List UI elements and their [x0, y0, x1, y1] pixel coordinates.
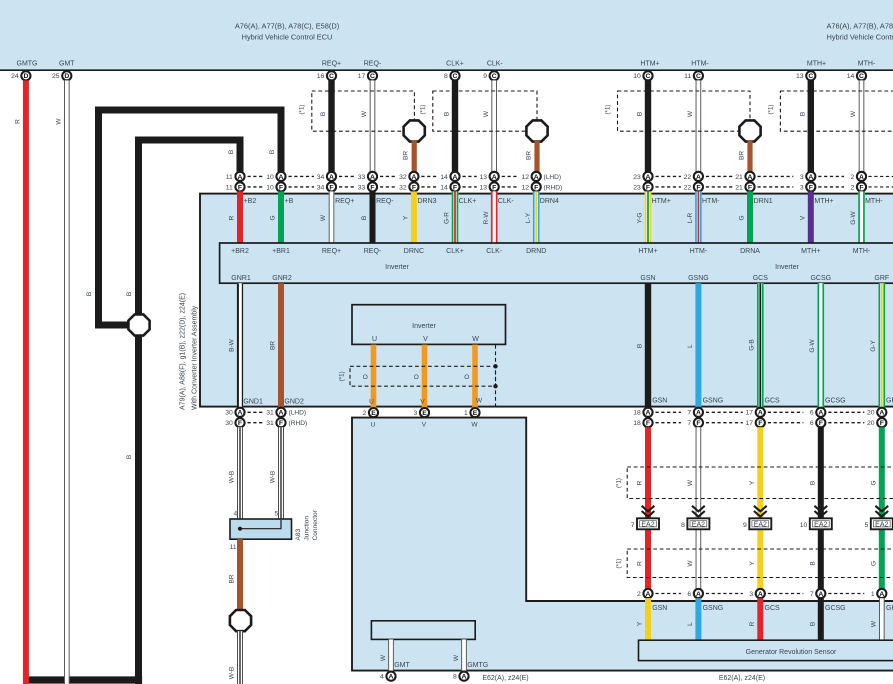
wire R to EA2 — [645, 427, 651, 589]
svg-text:C: C — [808, 73, 813, 80]
svg-text:7: 7 — [810, 591, 814, 598]
wire W (GMT) — [388, 639, 394, 670]
svg-text:REQ-: REQ- — [376, 198, 394, 205]
svg-text:A: A — [818, 591, 823, 598]
pin 13 connector circle C — [806, 71, 815, 80]
svg-text:F: F — [696, 420, 700, 427]
svg-text:A: A — [462, 674, 467, 681]
svg-text:8: 8 — [453, 674, 457, 681]
svg-text:V: V — [422, 422, 427, 429]
transaxle assembly box — [352, 418, 893, 671]
pin 21 connector circle F — [745, 182, 754, 191]
connector row dashes — [380, 175, 396, 177]
pin 21 connector circle A — [745, 172, 754, 181]
svg-text:REQ-: REQ- — [364, 248, 382, 255]
pin 18 circle F (sensor) — [643, 418, 652, 427]
svg-text:BR: BR — [738, 151, 745, 160]
svg-text:2: 2 — [851, 184, 855, 191]
svg-text:G-R: G-R — [444, 212, 451, 224]
svg-text:7: 7 — [631, 522, 635, 529]
svg-text:GMTG: GMTG — [17, 60, 38, 67]
svg-text:GRF: GRF — [886, 398, 893, 405]
svg-text:U: U — [371, 422, 376, 429]
svg-text:7: 7 — [687, 410, 691, 417]
wire B (B signal +) at x=810.8 — [808, 80, 814, 171]
svg-text:B: B — [320, 112, 327, 116]
pin 22 connector circle F — [694, 182, 703, 191]
svg-text:MTH-: MTH- — [853, 248, 871, 255]
svg-text:3: 3 — [749, 591, 753, 598]
pin 18 circle A (sensor) — [643, 408, 652, 417]
pin 2 connector circle A — [857, 172, 866, 181]
svg-text:R: R — [749, 621, 756, 626]
svg-text:(*1): (*1) — [339, 371, 346, 381]
pin 12 connector circle A — [532, 172, 541, 181]
wire W (GMTG) — [461, 639, 467, 670]
svg-text:E: E — [473, 410, 478, 417]
svg-text:F: F — [279, 184, 283, 191]
svg-text:U: U — [372, 336, 377, 343]
svg-text:A: A — [238, 410, 243, 417]
svg-text:14: 14 — [440, 174, 448, 181]
svg-text:GRF: GRF — [886, 605, 893, 612]
wire W (signal -) at x=372.5 — [370, 80, 376, 171]
svg-text:4: 4 — [234, 511, 238, 518]
svg-text:F: F — [748, 184, 752, 191]
svg-text:20: 20 — [867, 420, 875, 427]
svg-text:18: 18 — [633, 410, 641, 417]
svg-text:GCSG: GCSG — [810, 275, 831, 282]
wire R into inverter — [237, 191, 243, 243]
svg-text:GSNG: GSNG — [703, 605, 724, 612]
svg-text:33: 33 — [358, 184, 366, 191]
shield dashed box (*1) MTH — [780, 91, 893, 131]
svg-text:W: W — [850, 110, 857, 117]
svg-text:24: 24 — [11, 73, 19, 80]
svg-text:EA2: EA2 — [692, 522, 705, 529]
junction internal bus — [240, 520, 281, 529]
svg-text:A: A — [646, 591, 651, 598]
svg-text:A: A — [279, 410, 284, 417]
shield dashed box (*1) HTM — [618, 91, 751, 131]
shield dashed box (*1) CLK — [433, 91, 537, 131]
connector row dashes — [502, 175, 519, 177]
svg-text:E62(A), z24(E): E62(A), z24(E) — [719, 675, 765, 682]
shield dashed drop line — [495, 345, 497, 406]
connector row dashes right edge — [869, 175, 893, 177]
svg-text:C: C — [329, 73, 334, 80]
svg-text:B: B — [637, 112, 644, 116]
svg-text:34: 34 — [317, 184, 325, 191]
svg-text:A83: A83 — [295, 528, 302, 540]
shield octagon REQ — [404, 120, 425, 141]
svg-text:L: L — [687, 344, 694, 348]
pin 1 circle A (generator) — [877, 589, 886, 598]
svg-text:C: C — [370, 73, 375, 80]
svg-text:3: 3 — [800, 174, 804, 181]
svg-text:F: F — [238, 184, 242, 191]
svg-text:11: 11 — [226, 184, 233, 191]
svg-text:REQ+: REQ+ — [322, 248, 341, 255]
svg-text:W: W — [476, 397, 483, 404]
svg-text:DRNA: DRNA — [740, 248, 760, 255]
svg-text:22: 22 — [684, 184, 692, 191]
svg-text:3: 3 — [414, 410, 418, 417]
connector row dashes — [289, 175, 315, 177]
svg-text:10: 10 — [633, 73, 641, 80]
svg-text:R: R — [637, 480, 644, 485]
svg-text:GCSG: GCSG — [825, 398, 846, 405]
svg-text:DRN3: DRN3 — [418, 198, 437, 205]
svg-text:HTM-: HTM- — [690, 248, 708, 255]
pin 16 connector circle C — [327, 71, 336, 80]
svg-text:6: 6 — [810, 410, 814, 417]
wire W (signal -) at x=698.4 — [696, 80, 702, 171]
svg-text:Y: Y — [403, 215, 410, 220]
wire W to EA2 — [696, 427, 702, 589]
svg-text:Y: Y — [749, 480, 756, 485]
svg-text:W: W — [56, 118, 63, 125]
wire G-B (GCS) — [757, 283, 764, 407]
svg-text:B: B — [86, 292, 93, 296]
svg-text:21: 21 — [735, 174, 743, 181]
connector row dashes — [758, 175, 794, 177]
wire B (GSN) — [645, 283, 651, 407]
svg-text:5: 5 — [275, 511, 279, 518]
svg-text:A: A — [370, 174, 375, 181]
wire B (B signal +) at x=331.5 — [328, 80, 334, 171]
svg-text:CLK-: CLK- — [486, 248, 503, 255]
svg-text:F: F — [646, 184, 650, 191]
wire B thick joining octagon — [95, 322, 129, 329]
EA2 splice arrow 5 — [875, 506, 888, 512]
svg-text:V: V — [799, 215, 806, 220]
wire B into inverter — [370, 191, 376, 243]
pin 3 connector circle A — [806, 172, 815, 181]
svg-text:W: W — [870, 620, 877, 627]
svg-text:GNR2: GNR2 — [272, 275, 292, 282]
svg-text:R: R — [637, 561, 644, 566]
svg-text:F: F — [453, 184, 457, 191]
svg-text:DRN1: DRN1 — [754, 198, 773, 205]
svg-text:REQ+: REQ+ — [322, 60, 341, 67]
wire R (GMTG) — [23, 80, 29, 684]
svg-text:9: 9 — [743, 522, 747, 529]
svg-text:B: B — [228, 150, 235, 154]
svg-text:W: W — [472, 336, 479, 343]
svg-text:GSN: GSN — [652, 398, 667, 405]
pin 2 connector circle F — [857, 182, 866, 191]
svg-text:31: 31 — [266, 420, 274, 427]
wire O (U phase) — [371, 345, 377, 408]
sensor row dashes — [828, 411, 864, 413]
svg-text:GNR1: GNR1 — [231, 275, 251, 282]
svg-text:REQ+: REQ+ — [335, 198, 354, 205]
svg-text:B: B — [809, 622, 816, 626]
svg-text:B: B — [126, 292, 133, 296]
svg-text:E: E — [422, 410, 427, 417]
svg-text:CLK-: CLK- — [487, 60, 504, 67]
svg-text:23: 23 — [633, 174, 641, 181]
pin 22 connector circle A — [694, 172, 703, 181]
GND row dashes — [248, 411, 264, 413]
svg-text:32: 32 — [399, 174, 407, 181]
EA2 connector 7 — [637, 518, 659, 529]
connector row dashes — [818, 175, 844, 177]
EA2 connector 8 — [687, 518, 709, 529]
svg-text:33: 33 — [358, 174, 366, 181]
svg-text:HTM-: HTM- — [702, 198, 720, 205]
svg-text:5: 5 — [865, 522, 869, 529]
svg-text:A: A — [329, 174, 334, 181]
svg-text:GCSG: GCSG — [825, 605, 846, 612]
pin 30 circle F — [235, 418, 244, 427]
svg-text:GMT: GMT — [394, 662, 410, 669]
pin 1 circle E — [470, 408, 479, 417]
generator row dashes — [656, 593, 681, 595]
svg-text:With Converter Inverter Assemb: With Converter Inverter Assembly — [192, 305, 199, 410]
phase dashed box (*1) — [350, 366, 496, 386]
svg-text:W: W — [483, 110, 490, 117]
svg-text:F: F — [819, 420, 823, 427]
noise filter octagon left — [128, 314, 149, 335]
svg-text:A: A — [389, 674, 394, 681]
svg-text:30: 30 — [225, 410, 233, 417]
svg-text:REQ-: REQ- — [364, 60, 382, 67]
svg-text:A: A — [696, 591, 701, 598]
svg-text:W: W — [380, 654, 387, 661]
svg-text:R: R — [15, 119, 22, 124]
svg-text:F: F — [696, 184, 700, 191]
pin 13 connector circle A — [490, 172, 499, 181]
wire G-R into inverter — [452, 191, 459, 243]
svg-text:Inverter: Inverter — [775, 264, 799, 271]
svg-text:4: 4 — [380, 674, 384, 681]
svg-text:W: W — [687, 560, 694, 567]
pin 4 circle A — [386, 672, 395, 681]
wire B thick below octagon — [135, 335, 142, 684]
svg-text:8: 8 — [444, 73, 448, 80]
pin 6 circle A (sensor) — [816, 408, 825, 417]
svg-text:GSNG: GSNG — [688, 275, 709, 282]
pin 10 connector circle C — [643, 71, 652, 80]
pin 10 connector circle A — [276, 172, 285, 181]
svg-text:MTH-: MTH- — [858, 60, 876, 67]
svg-text:17: 17 — [358, 73, 366, 80]
svg-text:(*1): (*1) — [768, 105, 775, 115]
svg-text:O: O — [464, 374, 469, 381]
svg-text:F: F — [279, 420, 283, 427]
svg-text:A: A — [879, 591, 884, 598]
svg-text:+BR2: +BR2 — [231, 248, 249, 255]
svg-text:CLK-: CLK- — [498, 198, 515, 205]
svg-text:MTH+: MTH+ — [814, 198, 833, 205]
svg-text:+BR1: +BR1 — [272, 248, 290, 255]
wire L-R into inverter — [695, 191, 702, 243]
svg-text:W-B: W-B — [228, 471, 235, 484]
svg-text:9: 9 — [483, 73, 487, 80]
svg-text:Y: Y — [637, 621, 644, 626]
svg-text:A: A — [279, 174, 284, 181]
svg-text:2: 2 — [363, 410, 367, 417]
wire L (GSNG) — [695, 283, 701, 407]
svg-text:GCS: GCS — [765, 605, 781, 612]
svg-text:A79(A), A88(F), g1(B), z22(D),: A79(A), A88(F), g1(B), z22(D), z24(E) — [180, 293, 187, 410]
svg-text:A: A — [808, 174, 813, 181]
svg-text:A: A — [859, 174, 864, 181]
svg-text:EA2: EA2 — [875, 522, 888, 529]
svg-text:F: F — [412, 184, 416, 191]
svg-text:Connector: Connector — [312, 509, 319, 540]
hybrid vehicle control ECU box (top band) — [0, 0, 893, 69]
svg-text:W: W — [471, 422, 478, 429]
EA2 connector 10 — [810, 518, 832, 529]
pin 20 circle F (sensor) — [877, 418, 886, 427]
svg-text:V: V — [423, 336, 428, 343]
svg-text:A76(A), A77(B), A78(C), E58(D): A76(A), A77(B), A78(C), E58(D) — [827, 22, 893, 31]
svg-text:30: 30 — [225, 420, 233, 427]
shield dashed box (*1) REQ — [312, 91, 415, 131]
svg-text:Y: Y — [749, 561, 756, 566]
pin 32 connector circle F — [409, 182, 418, 191]
svg-text:R: R — [229, 215, 236, 220]
wire W (GMT) — [64, 80, 70, 684]
wire G-Y (GRF) — [879, 283, 886, 407]
wire B thick outer (to +B) — [99, 110, 282, 325]
svg-text:BR: BR — [403, 151, 410, 160]
svg-text:GMT: GMT — [59, 60, 75, 67]
pin 12 connector circle F — [532, 182, 541, 191]
svg-text:8: 8 — [681, 522, 685, 529]
wire R to revolution sensor — [757, 598, 763, 640]
wire V into inverter — [808, 191, 814, 243]
svg-text:CLK+: CLK+ — [446, 248, 464, 255]
connector row dashes — [706, 175, 733, 177]
svg-text:11: 11 — [230, 544, 237, 551]
svg-text:A76(A), A77(B), A78(C), E58(D): A76(A), A77(B), A78(C), E58(D) — [235, 22, 339, 31]
svg-text:11: 11 — [684, 73, 691, 80]
inverter box — [220, 243, 893, 283]
pin 31 circle A — [276, 408, 285, 417]
svg-text:A: A — [879, 410, 884, 417]
svg-text:A: A — [411, 174, 416, 181]
pin 7 circle F (sensor) — [694, 418, 703, 427]
wire BR shield HTM — [747, 141, 752, 172]
svg-text:1: 1 — [464, 410, 468, 417]
svg-text:V: V — [420, 398, 425, 405]
EA2 splice arrow 9 — [754, 506, 767, 512]
svg-text:1: 1 — [871, 591, 875, 598]
svg-text:13: 13 — [479, 184, 487, 191]
svg-text:A: A — [758, 410, 763, 417]
svg-text:C: C — [696, 73, 701, 80]
svg-text:EA2: EA2 — [641, 522, 654, 529]
pin 30 circle A — [235, 408, 244, 417]
wire L to revolution sensor — [695, 598, 701, 640]
svg-text:L-Y: L-Y — [525, 212, 532, 223]
pin 7 circle A (generator) — [816, 589, 825, 598]
svg-text:CLK+: CLK+ — [459, 198, 477, 205]
connector row dashes — [421, 175, 437, 177]
svg-text:Y-G: Y-G — [637, 213, 644, 224]
svg-text:18: 18 — [633, 420, 641, 427]
svg-text:D: D — [64, 73, 69, 80]
pin 11 connector circle A — [235, 172, 244, 181]
shield junction dot lower — [493, 384, 497, 388]
svg-text:(RHD): (RHD) — [544, 184, 563, 191]
svg-text:C: C — [646, 73, 651, 80]
EA2 connector 9 — [749, 518, 771, 529]
svg-text:B: B — [809, 561, 816, 565]
svg-text:MTH+: MTH+ — [801, 248, 820, 255]
svg-text:(*1): (*1) — [615, 478, 622, 488]
pin 9 connector circle C — [490, 71, 499, 80]
svg-text:EA2: EA2 — [754, 522, 767, 529]
svg-text:C: C — [492, 73, 497, 80]
pin 14 connector circle A — [450, 172, 459, 181]
svg-text:Junction: Junction — [304, 516, 311, 541]
svg-text:B: B — [809, 481, 816, 485]
wire W into inverter — [329, 191, 335, 243]
pin 23 connector circle F — [643, 182, 652, 191]
wire B thick bottom turn — [23, 676, 139, 680]
svg-text:13: 13 — [796, 73, 804, 80]
svg-text:16: 16 — [317, 73, 325, 80]
pin 17 circle F (sensor) — [756, 418, 765, 427]
svg-text:3: 3 — [800, 184, 804, 191]
svg-text:O: O — [414, 374, 419, 381]
svg-text:A: A — [758, 591, 763, 598]
svg-text:L: L — [687, 622, 694, 626]
wire Y into inverter — [411, 191, 417, 243]
pin 3 circle E — [420, 408, 429, 417]
wire L-Y into inverter — [533, 191, 540, 243]
svg-text:12: 12 — [521, 184, 529, 191]
pin 20 circle A (sensor) — [877, 408, 886, 417]
svg-text:10: 10 — [800, 522, 808, 529]
svg-text:Generator Revolution Sensor: Generator Revolution Sensor — [746, 649, 837, 656]
svg-text:F: F — [534, 184, 538, 191]
svg-text:2: 2 — [851, 174, 855, 181]
svg-text:14: 14 — [847, 73, 855, 80]
svg-text:W-B: W-B — [269, 471, 276, 484]
svg-text:31: 31 — [266, 410, 274, 417]
wire BR shield CLK — [534, 141, 539, 172]
pin 8 circle A — [459, 672, 468, 681]
svg-text:A: A — [492, 174, 497, 181]
EA2 splice arrow 8 — [692, 506, 705, 512]
generator revolution sensor box — [639, 640, 893, 660]
pin 2 circle A (generator) — [643, 589, 652, 598]
pin 2 circle E — [369, 408, 378, 417]
wire B-W (GNR1) — [237, 283, 243, 407]
svg-text:HTM+: HTM+ — [638, 248, 657, 255]
wire BR shield REQ — [412, 141, 417, 172]
wire B (B signal +) at x=455.0 — [452, 80, 458, 171]
svg-text:6: 6 — [810, 420, 814, 427]
pin 32 connector circle A — [409, 172, 418, 181]
svg-text:BR: BR — [270, 341, 277, 350]
svg-text:GSNG: GSNG — [703, 398, 724, 405]
pin 14 connector circle F — [450, 182, 459, 191]
sensor row dashes — [656, 411, 681, 413]
svg-text:A: A — [696, 174, 701, 181]
svg-text:A: A — [238, 174, 243, 181]
wire B to EA2 — [818, 427, 824, 589]
sensor row dashes — [768, 411, 804, 413]
pin 11 connector circle C — [694, 71, 703, 80]
connector row dashes — [463, 175, 477, 177]
